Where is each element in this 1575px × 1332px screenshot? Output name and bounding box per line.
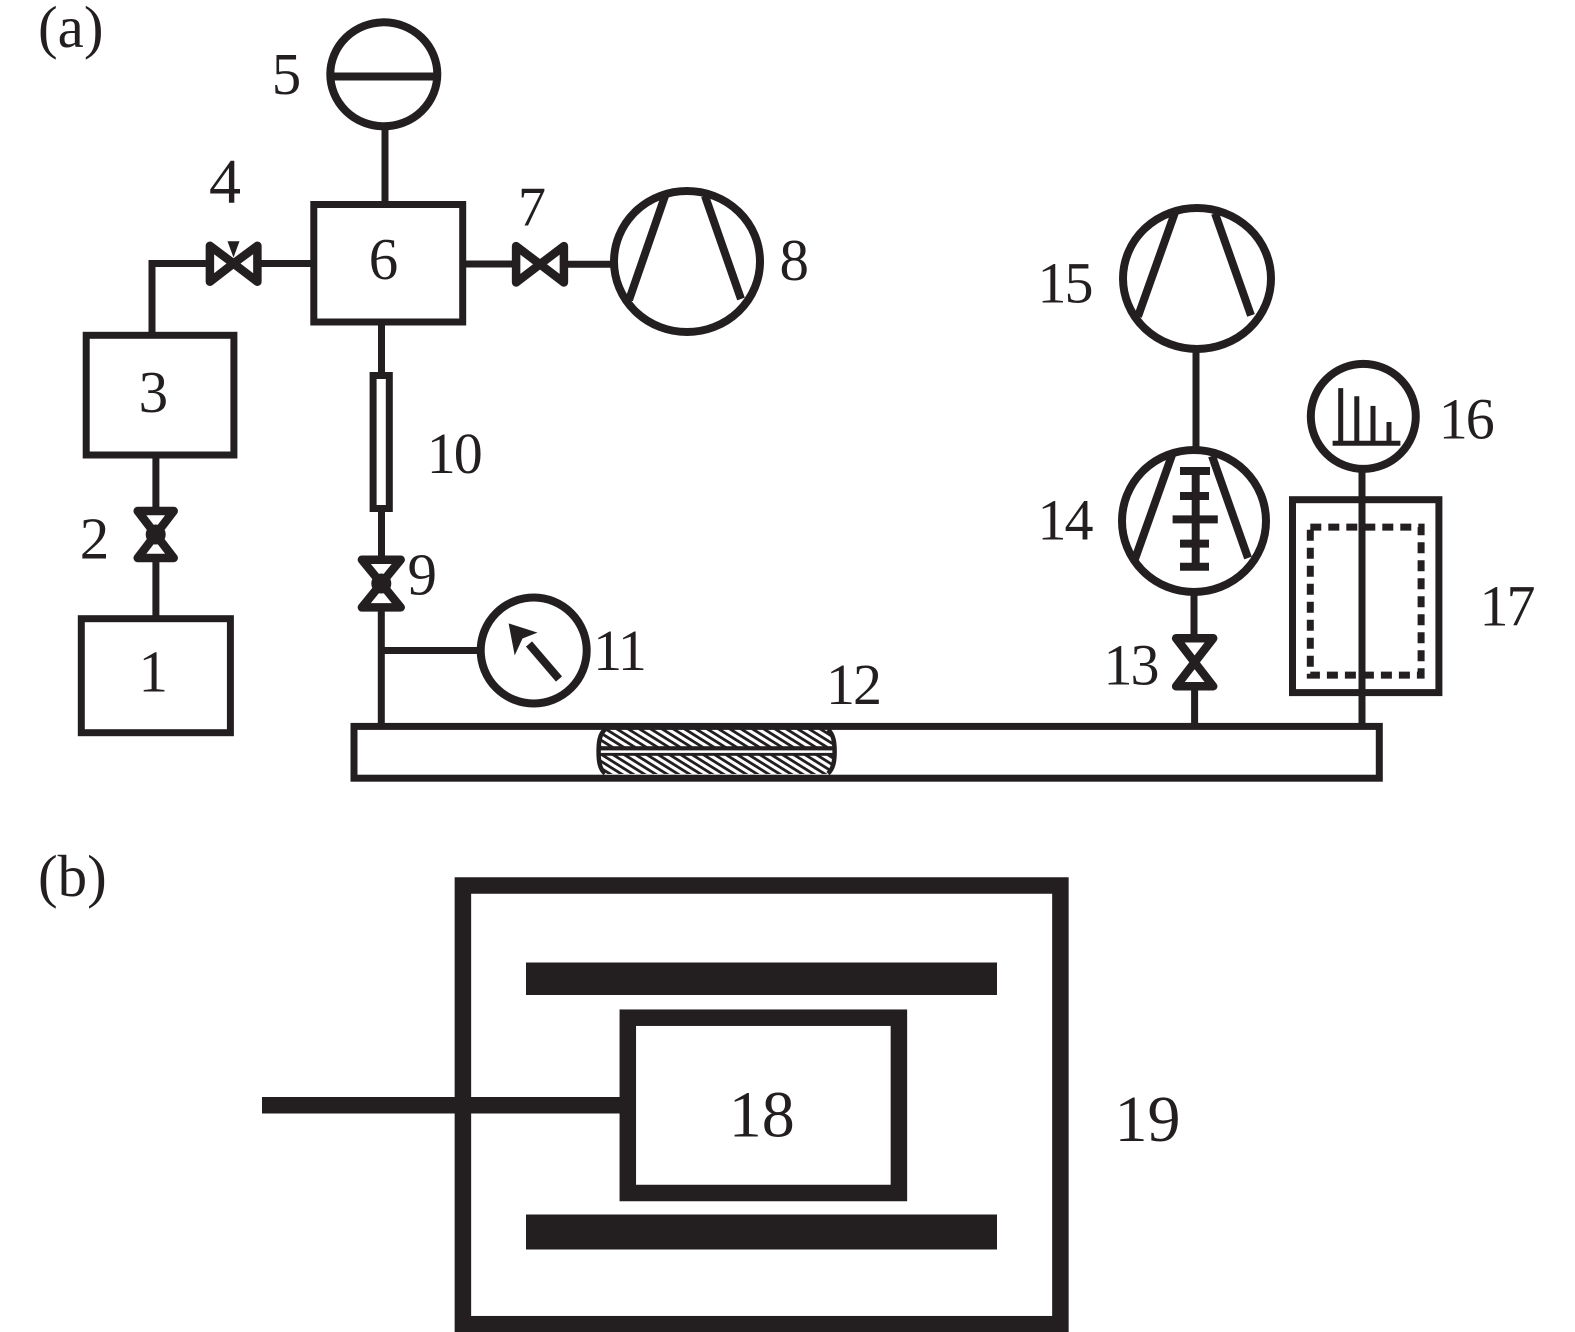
svg-text:15: 15 [1038,250,1092,315]
svg-text:17: 17 [1480,574,1535,639]
wire branch to gauge11 [381,647,482,654]
svg-text:12: 12 [826,652,880,717]
wire box3 to valve2 [152,455,159,509]
wire gauge16 to tube12 [1359,468,1366,726]
svg-text:9: 9 [407,542,437,608]
svg-text:14: 14 [1038,488,1094,553]
sample cell box 18 [628,1018,899,1193]
wire tube10 to valve9 [378,508,385,557]
valve 2 [138,511,174,558]
pump 8 [614,191,760,332]
dashed inner box of 17 [1310,527,1421,675]
wire gauge5 to box6 [382,126,389,208]
svg-text:5: 5 [272,41,302,107]
svg-text:2: 2 [80,506,110,572]
wire box6 to valve7 [463,261,514,268]
svg-text:8: 8 [779,227,809,293]
svg-text:(a): (a) [38,0,103,60]
svg-text:(b): (b) [38,843,107,909]
furnace outer box 19 [463,886,1061,1325]
svg-text:10: 10 [427,421,481,486]
box 1 [81,619,230,733]
valve 13 [1176,638,1213,686]
svg-text:1: 1 [138,639,168,705]
valve 4 [210,241,258,281]
wire valve2 to box1 [152,561,159,620]
svg-text:3: 3 [139,359,169,425]
svg-text:6: 6 [369,226,399,292]
valve 7 [516,246,564,282]
box 17 [1293,500,1439,693]
reactor tube 12 [354,726,1379,778]
pump 15 [1123,208,1271,349]
wire valve9 to tube12 [378,610,385,726]
wire pump14 to valve13 [1191,592,1198,636]
svg-text:4: 4 [209,146,241,217]
svg-text:16: 16 [1439,387,1494,452]
box 6 [314,205,463,323]
wire valve7 to pump8 [567,261,616,268]
svg-text:11: 11 [593,618,645,683]
box 3 [86,335,234,455]
wire box6 to valve4 [258,260,314,267]
gauge 16 (mass spectrometer head) [1311,364,1416,469]
valve 9 [362,560,401,608]
wire valve4 to box3 [152,264,207,337]
gauge 11 [481,598,587,704]
sample end caps [599,730,605,774]
gauge 5 [330,22,437,126]
heater top bar [526,963,997,996]
wire valve13 to tube12 [1191,689,1198,726]
thermocouple rod [262,1097,621,1114]
capillary tube 10 [373,376,389,509]
wire box6 to tube10 [378,322,385,376]
svg-text:7: 7 [518,177,546,239]
svg-text:13: 13 [1104,633,1158,698]
heater bottom bar [526,1215,997,1250]
svg-text:19: 19 [1115,1083,1181,1156]
wire pump15 to pump14 [1193,350,1200,450]
sample hatched region in tube 12 [512,727,910,778]
pump 14 [1122,450,1266,592]
svg-text:18: 18 [729,1079,795,1152]
